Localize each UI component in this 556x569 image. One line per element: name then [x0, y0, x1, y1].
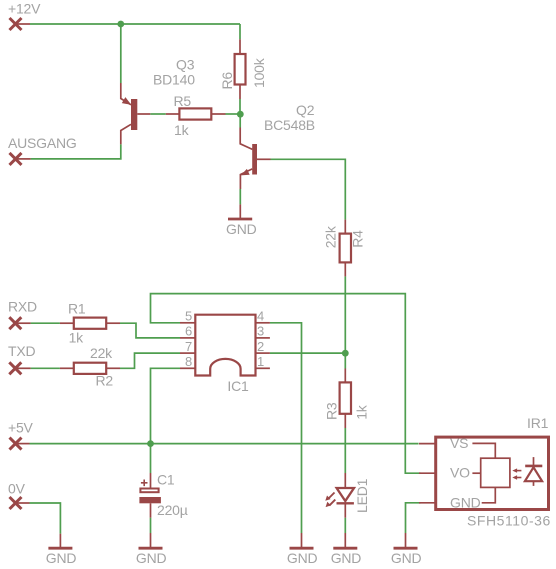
svg-text:IC1: IC1 — [227, 378, 249, 394]
svg-text:2: 2 — [257, 339, 264, 354]
svg-text:1: 1 — [257, 354, 264, 369]
svg-text:7: 7 — [185, 339, 192, 354]
svg-text:LED1: LED1 — [354, 478, 370, 513]
svg-text:R5: R5 — [174, 93, 192, 109]
svg-text:1k: 1k — [69, 329, 85, 345]
svg-text:GND: GND — [391, 550, 422, 566]
svg-text:4: 4 — [257, 309, 264, 324]
svg-text:GND: GND — [226, 221, 257, 237]
svg-text:+12V: +12V — [8, 0, 41, 16]
svg-text:R2: R2 — [96, 372, 114, 388]
svg-text:+5V: +5V — [8, 419, 34, 435]
svg-text:IR1: IR1 — [527, 415, 549, 431]
svg-text:1k: 1k — [174, 122, 190, 138]
svg-text:BD140: BD140 — [153, 71, 195, 87]
svg-text:GND: GND — [450, 494, 481, 510]
svg-text:R1: R1 — [68, 300, 86, 316]
svg-text:BC548B: BC548B — [264, 117, 315, 133]
svg-text:6: 6 — [185, 324, 192, 339]
svg-text:0V: 0V — [8, 480, 26, 496]
svg-text:Q3: Q3 — [176, 56, 195, 72]
svg-text:R6: R6 — [219, 72, 235, 90]
svg-text:1k: 1k — [353, 404, 369, 420]
svg-text:RXD: RXD — [8, 299, 37, 315]
svg-text:100k: 100k — [251, 57, 267, 88]
svg-text:Q2: Q2 — [296, 102, 315, 118]
svg-text:R4: R4 — [349, 230, 365, 248]
svg-text:TXD: TXD — [8, 343, 35, 359]
svg-text:GND: GND — [136, 550, 167, 566]
svg-text:VO: VO — [450, 465, 470, 481]
svg-text:GND: GND — [287, 550, 318, 566]
svg-text:SFH5110-36: SFH5110-36 — [467, 513, 551, 529]
svg-text:GND: GND — [46, 550, 77, 566]
svg-text:22k: 22k — [323, 225, 339, 248]
svg-text:8: 8 — [185, 354, 192, 369]
svg-text:GND: GND — [331, 550, 362, 566]
svg-text:220µ: 220µ — [157, 502, 188, 518]
svg-text:5: 5 — [185, 309, 192, 324]
svg-text:C1: C1 — [157, 472, 175, 488]
svg-text:3: 3 — [257, 324, 264, 339]
svg-text:22k: 22k — [90, 345, 113, 361]
svg-text:AUSGANG: AUSGANG — [8, 135, 77, 151]
svg-text:R3: R3 — [323, 402, 339, 420]
svg-text:VS: VS — [450, 435, 468, 451]
